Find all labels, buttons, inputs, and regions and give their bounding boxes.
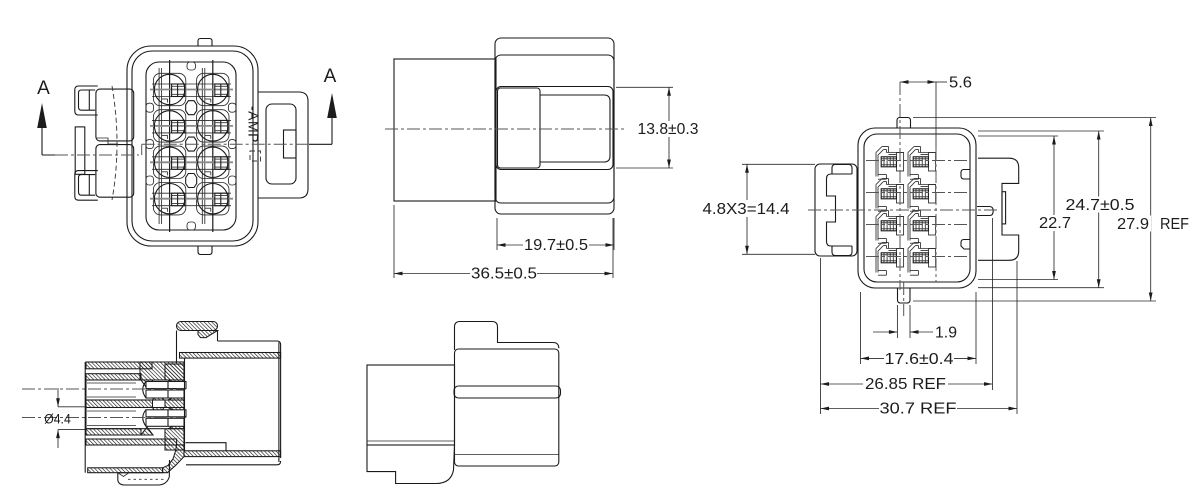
outline view: front body (455, 349, 559, 466)
section view: socket terminal 2 (143, 410, 186, 427)
section cutting line main segment (142, 143, 309, 145)
section line A-A right arrow (309, 66, 337, 144)
svg-text:4.8X3=14.4: 4.8X3=14.4 (703, 201, 790, 218)
svg-text:17.6±0.4: 17.6±0.4 (885, 351, 954, 368)
front view: left latch top hook (75, 86, 98, 115)
front view: right mounting wing (258, 92, 308, 198)
section view: front face line (84, 362, 86, 473)
front view: inner cavity frame (146, 62, 236, 230)
section cutting line left segment (55, 154, 139, 156)
outline view: rear housing (367, 365, 455, 445)
section line A-A left arrow (37, 78, 60, 155)
front view: hidden line arc (112, 86, 117, 200)
front view: web cutout octagons between cavities (186, 101, 197, 188)
rear view: bottom tab (898, 288, 911, 303)
pin cavity circle r1c2 (198, 74, 228, 104)
pin cavity circle r2c2 (198, 111, 228, 141)
section line jog (141, 144, 143, 155)
dimension 19.7±0.5 (497, 218, 614, 254)
side view: inner shroud (496, 87, 613, 170)
front view: connector body outline (127, 46, 258, 246)
side view: front housing body (495, 38, 614, 214)
svg-text:24.7±0.5: 24.7±0.5 (1066, 197, 1135, 214)
svg-text:REF: REF (1160, 216, 1189, 233)
rear view: top tab (897, 118, 911, 129)
dimension 4.8X3=14.4 (700, 164, 815, 254)
section view: interior left wall (184, 358, 186, 451)
section view: top mounting tab hatched (177, 322, 218, 331)
outline view: bottom foot (367, 445, 455, 484)
pin cavity circle r4c2 (198, 184, 228, 214)
rear view: right column line (935, 82, 937, 148)
section view: cavity centerline 1 (22, 388, 186, 390)
dimension 22.7 (978, 136, 1073, 280)
dimension 30.7 REF (821, 261, 1018, 418)
dimension 13.8±0.3 (616, 87, 702, 168)
front view: left latch pocket upper (96, 89, 134, 141)
section view: rear block bottom band (184, 451, 281, 457)
section view: tab support lines (176, 331, 178, 364)
side view: keyway slot (498, 88, 541, 168)
front view: terminal slot edge lines (152, 84, 231, 206)
svg-text:22.7: 22.7 (1039, 215, 1071, 232)
section view: rear block top edge (218, 341, 281, 458)
pin cavity circle r1c1 (154, 74, 184, 104)
section view: elbow junction (163, 445, 184, 473)
section view: wall band 3 (86, 400, 153, 408)
front view: pin row centerlines (gray) (150, 90, 233, 199)
section view: rear block roof band (180, 353, 281, 359)
pin cavity circle r3c2 (198, 147, 228, 177)
section view: socket terminal 1 (143, 382, 186, 399)
terminal cavity r2c1 (876, 179, 904, 212)
outline view: seal band (454, 386, 561, 398)
section view: cavity channel 2 (86, 408, 184, 429)
section view: cavity centerline 2 (22, 417, 186, 419)
svg-text:36.5±0.5: 36.5±0.5 (471, 266, 537, 283)
front view: top alignment tab (198, 39, 212, 47)
side view: inner tongue (540, 95, 610, 162)
terminal cavity r2c2 (908, 179, 936, 212)
outline view: top key tab (455, 322, 559, 351)
front view: edge slot cutouts (146, 62, 236, 230)
section view: bottom wall band (88, 468, 163, 473)
terminal cavity r3c1 (876, 211, 904, 244)
svg-text:19.7±0.5: 19.7±0.5 (524, 237, 588, 254)
front view: dashed logo box (250, 151, 261, 161)
rear view: left latch (815, 164, 857, 256)
dimension 17.6±0.4 (861, 292, 977, 368)
section view: rear block bottom outline (186, 461, 281, 465)
terminal cavity r4c1 (876, 243, 904, 276)
terminal cavity r1c2 (908, 147, 936, 180)
section view: cavity channel 1 (86, 380, 184, 400)
svg-text:26.85 REF: 26.85 REF (865, 376, 946, 393)
front view: terminal bar lines (159, 68, 205, 224)
terminal cavity r3c2 (908, 211, 936, 244)
front view: left middle stop rib (75, 127, 85, 174)
dimension Ø4.4 (44, 388, 85, 448)
section view: cavity 1 taper lines (87, 383, 136, 426)
rear view: row centerlines (866, 161, 968, 257)
section view: interior step (185, 443, 226, 451)
terminal cavity r4c2 (908, 243, 936, 276)
dimension 36.5±0.5 (394, 205, 613, 283)
rear view: body outline (858, 128, 976, 288)
section view: rear junction mass hatched (165, 364, 184, 450)
dimension 5.6 (900, 75, 972, 92)
front view: bottom alignment tab (198, 246, 212, 255)
front view: cavity web cells (153, 73, 229, 215)
dimension 26.85 REF (821, 218, 993, 414)
dimension 27.9 REF (913, 118, 1189, 302)
front view: pin column centerlines (169, 60, 171, 232)
svg-text:27.9: 27.9 (1117, 216, 1149, 233)
section view: retention teeth channel 2 (153, 408, 165, 417)
pin cavity circle r4c1 (154, 184, 184, 214)
section view: wall band 4 (86, 429, 141, 435)
section view: bottom hook (118, 460, 170, 485)
rear view: center bump (977, 207, 993, 216)
front view: left latch pocket lower (96, 145, 134, 198)
section view: wall band 1 (86, 362, 152, 369)
svg-text:A: A (324, 66, 337, 87)
svg-text:5.6: 5.6 (949, 75, 972, 92)
svg-text:A: A (37, 78, 50, 99)
front view: latch pocket jog (96, 138, 118, 144)
section view: retention teeth channel 1 (141, 380, 153, 389)
rear view: left column centerline (899, 82, 901, 290)
svg-text:1.9: 1.9 (935, 325, 957, 342)
pin cavity circle r3c1 (154, 147, 184, 177)
side view: rear housing rectangle (394, 59, 496, 201)
dimension 1.9 (873, 305, 957, 342)
rear view: right inner tabs (961, 170, 970, 180)
section view: wall band 2 (86, 374, 141, 380)
rear view: right wing (978, 158, 1019, 260)
svg-text:-AMP: -AMP (246, 106, 261, 143)
svg-text:13.8±0.3: 13.8±0.3 (638, 121, 699, 138)
section view: rear block right wall inner (278, 342, 280, 462)
rear view: main horizontal centerline (808, 209, 998, 211)
svg-text:Ø4.4: Ø4.4 (44, 412, 71, 427)
dimension 24.7±0.5 (978, 131, 1136, 288)
side view: horizontal centerline (385, 128, 624, 130)
section view: wall band 5 (86, 439, 177, 445)
svg-text:30.7 REF: 30.7 REF (880, 401, 957, 418)
terminal cavity r1c1 (876, 147, 904, 180)
rear view: tab centerline (903, 282, 905, 316)
pin cavity circle r2c1 (154, 111, 184, 141)
front view: left latch bottom hook (75, 171, 98, 201)
